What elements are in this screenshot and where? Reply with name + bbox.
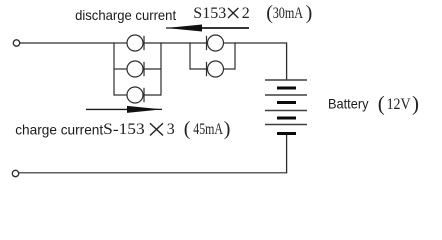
terminal T1 (top left) bbox=[13, 40, 19, 46]
cell A1 (S-153) bbox=[114, 35, 161, 51]
cell A2 (S-153) bbox=[114, 61, 161, 77]
pack A left bus bbox=[113, 42, 115, 95]
wire: bottom return bbox=[19, 172, 287, 174]
pack B right bus bbox=[234, 42, 236, 69]
battery BT1 plate 3 long bbox=[265, 110, 307, 112]
wire: T1 to pack A bbox=[20, 42, 114, 44]
svg-text:12V: 12V bbox=[387, 96, 411, 113]
discharge current arrow (pointing left) bbox=[166, 25, 249, 32]
battery BT1 plate 4 long bbox=[265, 124, 307, 126]
pack A right bus bbox=[160, 42, 162, 95]
svg-text:30mA: 30mA bbox=[273, 5, 304, 22]
svg-text:3: 3 bbox=[167, 121, 175, 138]
svg-text:S-153: S-153 bbox=[103, 121, 145, 138]
battery BT1 plate 2 long bbox=[265, 94, 307, 96]
label: (12V) bbox=[378, 92, 419, 116]
battery BT1 plate 4 short bbox=[277, 132, 296, 135]
svg-text:(: ( bbox=[184, 118, 191, 140]
svg-text:45mA: 45mA bbox=[193, 121, 223, 138]
terminal T2 (bottom left) bbox=[12, 170, 18, 176]
battery BT1 plate 1 short bbox=[277, 87, 296, 90]
cell B2 (S153) bbox=[190, 61, 235, 77]
pack B left bus bbox=[189, 42, 191, 69]
charge current arrow (pointing right) bbox=[86, 106, 162, 113]
label: S153×2 (30mA) rating bbox=[193, 2, 312, 24]
cell B1 (S153) bbox=[190, 35, 235, 51]
svg-text:): ) bbox=[224, 118, 231, 140]
battery BT1 plate 2 short bbox=[277, 101, 296, 104]
wire: pack A to pack B bbox=[161, 42, 190, 44]
battery BT1 plate 1 long bbox=[265, 79, 307, 81]
wire: down to battery bbox=[286, 42, 288, 80]
svg-text:charge current: charge current bbox=[15, 121, 103, 137]
battery BT1 plate 3 short bbox=[277, 117, 296, 120]
svg-text:2: 2 bbox=[242, 5, 250, 22]
svg-text:S153: S153 bbox=[193, 5, 226, 22]
wire: pack B to battery top bbox=[235, 42, 287, 44]
svg-text:): ) bbox=[412, 92, 419, 116]
svg-text:Battery: Battery bbox=[328, 96, 369, 112]
svg-text:(: ( bbox=[378, 92, 385, 116]
wire: battery bottom down bbox=[286, 135, 288, 173]
svg-text:discharge current: discharge current bbox=[75, 7, 176, 23]
label: S-153×3 (45mA) rating bbox=[103, 118, 230, 140]
svg-text:): ) bbox=[306, 2, 313, 24]
cell A3 (S-153) bbox=[114, 87, 161, 103]
